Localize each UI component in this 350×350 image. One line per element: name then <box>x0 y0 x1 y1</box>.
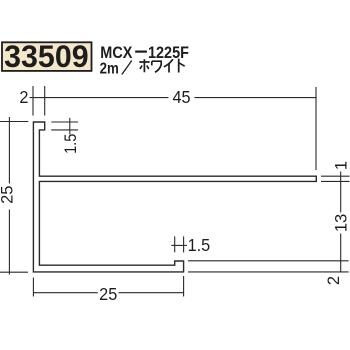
katakana wa <box>152 61 161 72</box>
dim 25 (bottom width) <box>33 276 184 304</box>
extension line top <box>321 175 350 177</box>
svg-text:1225F: 1225F <box>148 44 189 62</box>
dim 1.5 (top lip depth) <box>51 118 80 154</box>
dimension line <box>171 244 187 246</box>
svg-text:13: 13 <box>332 214 350 232</box>
extension line left <box>32 278 34 297</box>
dim 2 (top lip width) <box>19 86 168 116</box>
model label MCX-1225F <box>100 44 189 62</box>
extension tick top <box>51 121 78 123</box>
svg-text:2m: 2m <box>100 60 119 77</box>
extension line bottom <box>321 180 350 182</box>
katakana ho <box>139 59 149 72</box>
dimension line left <box>34 292 98 294</box>
dimension line <box>195 97 317 99</box>
dim 1 (arm thickness, right) <box>321 161 350 213</box>
extension line right <box>183 276 185 297</box>
dimension line right <box>119 292 185 294</box>
part number box 33509 <box>2 38 92 74</box>
svg-text:1: 1 <box>332 161 350 170</box>
extension line right <box>44 86 46 116</box>
extension tick left <box>174 236 176 252</box>
dimension line <box>69 118 71 135</box>
svg-text:25: 25 <box>0 186 17 204</box>
dimension line <box>340 172 342 213</box>
dimension line lower <box>8 210 10 275</box>
extension line right <box>315 87 317 170</box>
dim 1.5 (bottom tab width) <box>171 235 210 255</box>
svg-text:2: 2 <box>325 276 343 285</box>
svg-text:1.5: 1.5 <box>188 235 211 255</box>
dim 25 (left height) <box>0 117 28 275</box>
extension tick top <box>0 121 28 123</box>
katakana i <box>164 59 173 72</box>
extension tick bottom <box>0 271 28 273</box>
svg-text:25: 25 <box>99 284 117 304</box>
dimension line upper <box>8 117 10 184</box>
dimension line <box>30 97 169 99</box>
dimension line <box>340 234 342 272</box>
dim 2 (bottom right) <box>188 261 349 285</box>
extension tick right <box>183 236 185 252</box>
extension line left <box>32 86 34 116</box>
extension tick bottom <box>51 129 78 131</box>
spec label 2m / white <box>100 59 185 78</box>
extension line top <box>188 260 349 262</box>
dim 45 (arm length) <box>172 87 316 170</box>
katakana to <box>179 59 185 73</box>
svg-text:45: 45 <box>172 88 190 108</box>
extension line bottom <box>188 271 349 273</box>
slash <box>122 61 132 75</box>
dim 13 (right) <box>332 214 350 272</box>
svg-text:33509: 33509 <box>4 38 89 74</box>
svg-text:2: 2 <box>19 88 28 108</box>
profile outline <box>33 122 316 272</box>
svg-text:1.5: 1.5 <box>62 134 80 154</box>
